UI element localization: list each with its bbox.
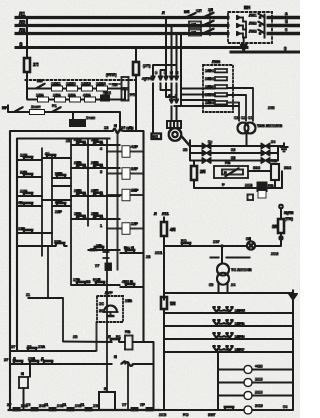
svg-text:ОЛ: ОЛ: [196, 9, 202, 13]
svg-text:10: 10: [27, 345, 31, 349]
svg-text:23: 23: [146, 255, 150, 259]
svg-text:1РБ: 1РБ: [74, 212, 82, 216]
svg-text:РВ: РВ: [268, 184, 274, 188]
svg-text:1ЛРУ: 1ЛРУ: [235, 348, 245, 352]
svg-text:1ДБ: 1ДБ: [36, 94, 44, 98]
svg-text:41: 41: [80, 403, 84, 407]
svg-text:77: 77: [95, 264, 99, 268]
svg-text:4УБ: 4УБ: [74, 138, 81, 142]
svg-text:107: 107: [213, 240, 219, 244]
svg-text:б: б: [285, 19, 288, 24]
svg-text:62: 62: [231, 148, 235, 152]
svg-text:(РПЛ): (РПЛ): [106, 73, 117, 77]
svg-text:37: 37: [4, 358, 8, 362]
svg-text:4б: 4б: [45, 152, 50, 156]
svg-text:Л11: Л11: [162, 212, 169, 216]
svg-text:37: 37: [121, 126, 125, 130]
svg-text:10А: 10А: [38, 345, 45, 349]
svg-text:41: 41: [44, 403, 48, 407]
svg-text:1ДД1: 1ДД1: [51, 82, 61, 86]
svg-text:Л: Л: [154, 212, 157, 216]
svg-text:13В: 13В: [18, 227, 25, 231]
svg-text:РБ: РБ: [225, 161, 231, 165]
svg-text:1ДД4: 1ДД4: [96, 82, 107, 86]
svg-text:10Д: 10Д: [28, 357, 35, 361]
svg-text:Я: Я: [114, 124, 117, 128]
svg-text:1С: 1С: [99, 302, 104, 306]
svg-text:1ЛРБ: 1ЛРБ: [235, 322, 245, 326]
svg-text:65: 65: [183, 148, 187, 152]
svg-text:33: 33: [86, 280, 90, 284]
svg-text:С2: С2: [241, 116, 246, 120]
svg-text:(2П): (2П): [143, 64, 151, 68]
svg-text:Я: Я: [114, 355, 117, 359]
svg-text:208: 208: [268, 106, 274, 110]
svg-text:1ЛБ: 1ЛБ: [91, 138, 99, 142]
svg-text:0: 0: [20, 43, 23, 49]
svg-text:ВН: ВН: [244, 5, 250, 10]
svg-text:23Р: 23Р: [55, 210, 62, 214]
svg-text:1ЛН1: 1ЛН1: [205, 69, 215, 73]
svg-text:10: 10: [26, 403, 30, 407]
svg-text:ЛН3: ЛН3: [249, 30, 257, 34]
svg-text:32В: 32В: [20, 171, 27, 175]
svg-text:4Б: 4Б: [18, 201, 23, 205]
svg-text:Л: Л: [162, 11, 165, 15]
svg-text:1ЛН2: 1ЛН2: [205, 85, 215, 89]
svg-text:5Л: 5Л: [170, 301, 175, 306]
svg-text:Р1: Р1: [116, 335, 121, 339]
svg-text:65: 65: [209, 283, 213, 287]
svg-text:2О1: 2О1: [155, 251, 162, 255]
svg-text:ЛН2: ЛН2: [249, 22, 257, 26]
svg-text:3Л: 3Л: [272, 224, 277, 229]
svg-text:РО: РО: [181, 239, 186, 243]
svg-text:+ОЗ: +ОЗ: [255, 365, 263, 369]
svg-text:1РВ: 1РВ: [91, 212, 99, 216]
svg-text:4Л: 4Л: [170, 227, 175, 232]
svg-text:2ЗВ: 2ЗВ: [20, 190, 27, 194]
svg-text:3А3: 3А3: [253, 166, 260, 170]
svg-text:Л2: Л2: [19, 21, 26, 27]
svg-text:6с: 6с: [208, 140, 212, 144]
svg-text:63: 63: [231, 156, 235, 160]
svg-text:ЗВТ: ЗВТ: [208, 413, 216, 417]
svg-text:ЛУР: ЛУР: [105, 291, 113, 295]
svg-text:1ДД2: 1ДД2: [66, 82, 76, 86]
svg-text:1ЛРМ: 1ЛРМ: [235, 309, 245, 313]
svg-text:Н: Н: [170, 71, 173, 75]
svg-text:3ЛР: 3ЛР: [55, 200, 63, 204]
svg-text:ТАВ 380/220В: ТАВ 380/220В: [257, 124, 282, 128]
svg-text:11: 11: [26, 293, 30, 297]
svg-text:1ДД3: 1ДД3: [81, 82, 91, 86]
svg-text:Л: Л: [108, 335, 111, 339]
svg-text:С3: С3: [234, 116, 239, 120]
svg-text:1ЛРН: 1ЛРН: [235, 335, 245, 339]
svg-text:ЯМ: ЯМ: [153, 135, 158, 139]
svg-text:Н: Н: [176, 71, 179, 75]
svg-text:(ЛВ): (ЛВ): [285, 217, 294, 221]
svg-text:ВБ: ВБ: [37, 79, 43, 83]
svg-text:Я: Я: [21, 372, 24, 376]
svg-text:2СЗ: 2СЗ: [159, 413, 167, 417]
svg-text:4ВЗ В: 4ВЗ В: [122, 280, 133, 284]
svg-text:3С: 3С: [99, 309, 104, 313]
svg-text:3: 3: [100, 170, 102, 174]
svg-text:1ОЗ: 1ОЗ: [255, 378, 263, 382]
svg-text:2Л: 2Л: [200, 169, 205, 174]
svg-text:37: 37: [7, 403, 11, 407]
svg-text:32Р: 32Р: [131, 167, 138, 171]
svg-text:2О2: 2О2: [271, 252, 278, 256]
svg-text:37: 37: [11, 345, 15, 349]
svg-text:7Р: 7Р: [140, 403, 145, 407]
svg-text:2ЛЛ: 2ЛЛ: [91, 189, 99, 193]
svg-text:1П: 1П: [33, 62, 38, 67]
svg-text:1Л: 1Л: [208, 8, 213, 12]
svg-text:А: А: [168, 94, 171, 98]
svg-text:4ДБ: 4ДБ: [83, 94, 91, 98]
svg-text:5ЛР: 5ЛР: [55, 172, 63, 176]
svg-text:2ОЗ: 2ОЗ: [255, 391, 263, 395]
svg-text:2Лч: 2Лч: [90, 248, 97, 252]
svg-text:ЛН1: ЛН1: [249, 14, 257, 18]
svg-text:Вш Н: Вш Н: [124, 246, 134, 250]
svg-text:РБ: РБ: [125, 330, 131, 334]
svg-text:1том: 1том: [86, 116, 95, 120]
svg-text:2ЛВ: 2ЛВ: [74, 189, 82, 193]
svg-text:17Б: 17Б: [73, 278, 80, 282]
svg-text:2ЛН2: 2ЛН2: [205, 93, 215, 97]
svg-text:Д: Д: [41, 357, 44, 361]
svg-text:1ЛН3: 1ЛН3: [205, 101, 215, 105]
svg-text:1ном: 1ном: [31, 105, 41, 109]
svg-text:41: 41: [62, 403, 66, 407]
svg-text:С1: С1: [248, 116, 253, 120]
svg-text:4(ЛРН: 4(ЛРН: [142, 77, 154, 81]
svg-text:42Р: 42Р: [131, 145, 138, 149]
svg-text:25: 25: [73, 335, 77, 339]
svg-text:Д: Д: [13, 357, 16, 361]
svg-text:Я(ЛВ: Я(ЛВ: [284, 211, 294, 215]
svg-text:Р1Л: Р1Л: [93, 278, 101, 282]
svg-text:Я: Я: [104, 387, 107, 391]
svg-text:4РН: 4РН: [126, 127, 134, 131]
svg-text:3А3: 3А3: [284, 166, 291, 170]
svg-text:13: 13: [104, 126, 108, 130]
svg-text:12Р: 12Р: [131, 222, 138, 226]
svg-text:Р1: Р1: [52, 104, 57, 108]
svg-text:2О3: 2О3: [245, 184, 252, 188]
svg-text:21Б: 21Б: [125, 299, 132, 303]
svg-text:2Лг: 2Лг: [96, 244, 103, 248]
svg-text:1ЗР: 1ЗР: [54, 240, 61, 244]
svg-text:1: 1: [100, 224, 102, 228]
svg-text:Л1: Л1: [19, 12, 26, 18]
svg-text:3ДБ: 3ДБ: [68, 94, 76, 98]
svg-text:ЗОЗ: ЗОЗ: [255, 404, 263, 408]
svg-text:МВ: МВ: [271, 159, 277, 163]
svg-text:1ЗВ: 1ЗВ: [20, 154, 27, 158]
svg-text:ПБК: ПБК: [103, 91, 111, 95]
svg-text:3ЛР: 3ЛР: [131, 189, 139, 193]
svg-text:2ЛВ: 2ЛВ: [91, 161, 99, 165]
svg-text:25: 25: [66, 139, 70, 143]
svg-text:РМ: РМ: [130, 93, 136, 97]
svg-text:РО: РО: [183, 413, 188, 417]
svg-text:ВЛ: ВЛ: [184, 10, 190, 14]
svg-text:103: 103: [93, 404, 99, 408]
svg-text:2Л: 2Л: [191, 23, 196, 27]
svg-text:Л3: Л3: [19, 29, 26, 35]
svg-text:2ЛН1: 2ЛН1: [205, 77, 215, 81]
svg-text:3Л: 3Л: [191, 31, 196, 35]
svg-text:ТС 220/24В: ТС 220/24В: [231, 268, 252, 272]
svg-text:77: 77: [122, 403, 126, 407]
svg-text:2ЛБ: 2ЛБ: [74, 161, 82, 165]
svg-text:ЛНВ: ЛНВ: [212, 60, 220, 64]
svg-text:2ДБ: 2ДБ: [53, 94, 61, 98]
svg-text:6Л: 6Л: [246, 237, 251, 241]
svg-text:ВР: ВР: [2, 106, 8, 110]
